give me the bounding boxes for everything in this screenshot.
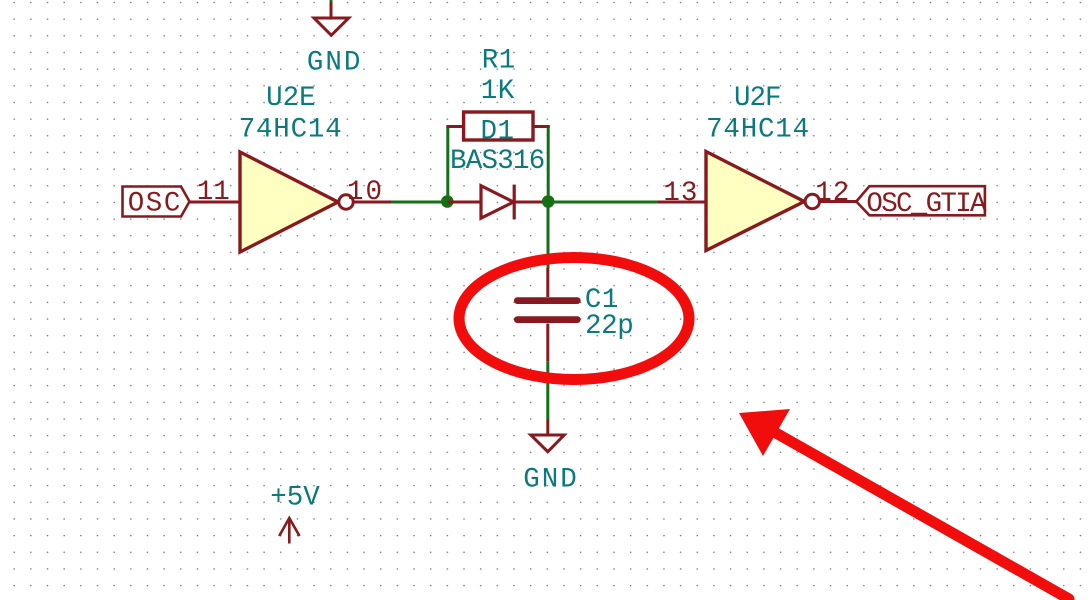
svg-text:74HC14: 74HC14 <box>706 115 810 146</box>
svg-text:74HC14: 74HC14 <box>239 115 343 146</box>
svg-text:22p: 22p <box>585 311 633 342</box>
svg-text:1K: 1K <box>481 76 515 107</box>
junction node A <box>441 195 454 208</box>
svg-text:GND: GND <box>523 465 579 496</box>
inverter gate U2E (74HC14) <box>240 152 353 252</box>
annotation ellipse (red highlight around C1) <box>459 258 689 380</box>
pin 12 of U2F (output) <box>815 178 856 209</box>
svg-text:BAS316: BAS316 <box>450 146 544 177</box>
svg-text:OSC: OSC <box>128 189 182 220</box>
wire: top power rail into GND symbol <box>330 0 333 3</box>
net label OSC_GTIA <box>856 186 987 220</box>
ground symbol GND (top) <box>314 2 349 35</box>
svg-text:U2E: U2E <box>266 83 316 114</box>
wire: node B to U2F pin 13 <box>548 201 658 204</box>
svg-text:GND: GND <box>307 47 363 78</box>
pin 13 of U2F (input) <box>658 178 706 209</box>
svg-text:R1: R1 <box>482 46 516 77</box>
wire: C1 to GND (bottom) <box>546 361 549 419</box>
pin 10 of U2E (output) <box>347 177 391 208</box>
svg-text:+5V: +5V <box>270 482 320 513</box>
svg-text:12: 12 <box>815 178 850 209</box>
svg-text:13: 13 <box>663 178 698 209</box>
wire: U2E pin 10 to node A <box>391 201 447 204</box>
capacitor C1 <box>517 268 577 361</box>
wire: node B down to C1 <box>547 202 550 268</box>
junction node B <box>542 195 555 208</box>
svg-text:U2F: U2F <box>734 83 781 114</box>
ground symbol GND (bottom) <box>531 419 564 452</box>
wire: R1 right pin down to node B <box>547 127 550 203</box>
svg-text:OSC_GTIA: OSC_GTIA <box>866 189 987 220</box>
svg-text:11: 11 <box>197 177 230 208</box>
inverter gate U2F (74HC14) <box>706 152 820 251</box>
svg-text:10: 10 <box>347 177 384 208</box>
pin 11 of U2E (input) <box>190 177 241 208</box>
power symbol +5V <box>270 482 320 543</box>
svg-text:D1: D1 <box>481 117 515 148</box>
wire: node A up to R1 left pin <box>446 127 449 203</box>
diode D1 <box>447 185 548 220</box>
annotation arrow (red) <box>739 409 1069 599</box>
net label OSC <box>123 187 190 220</box>
resistor R1 <box>446 112 549 140</box>
